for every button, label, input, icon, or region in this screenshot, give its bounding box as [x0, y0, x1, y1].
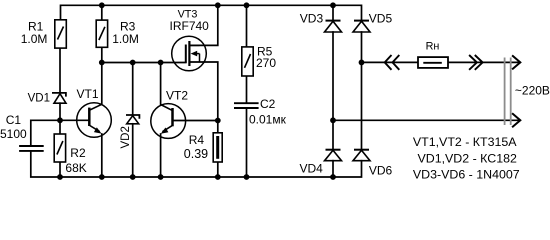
mains arrow bottom [512, 113, 520, 127]
junction VT1 emitter bottom rail [99, 174, 105, 180]
resistor R3 [96, 20, 107, 47]
junction VD1/R2 base node [57, 117, 63, 123]
svg-text:0.39: 0.39 [184, 147, 208, 161]
mains boundary double line [505, 58, 511, 126]
zener diode VD1 [52, 93, 66, 103]
wire VT2 emitter to rail [160, 134, 162, 177]
svg-text:VD1: VD1 [28, 92, 50, 104]
transistor VT2 [151, 104, 186, 139]
svg-text:VT1,VT2 - КТ315А: VT1,VT2 - КТ315А [413, 135, 517, 149]
svg-text:VD3-VD6 - 1N4007: VD3-VD6 - 1N4007 [413, 168, 520, 182]
diode VD6 [353, 150, 370, 161]
svg-text:VD4: VD4 [300, 161, 324, 175]
transistor VT1 [77, 103, 112, 138]
svg-text:Rн: Rн [426, 40, 440, 52]
junction VD3/VD4 mains node [330, 117, 336, 123]
zener diode VD2 [126, 115, 139, 124]
svg-text:VT2: VT2 [166, 89, 188, 103]
wire mains top [362, 61, 419, 63]
wire R1 bottom to VD1 [59, 48, 61, 93]
svg-text:5100: 5100 [0, 127, 27, 141]
svg-text:1.0M: 1.0M [112, 32, 139, 46]
svg-text:270: 270 [256, 56, 276, 70]
svg-text:C1: C1 [6, 113, 22, 127]
junction VD2 gate bus [130, 60, 136, 66]
wire VD1 to base node [59, 103, 61, 120]
wire base node to R2 [59, 120, 61, 134]
svg-text:IRF740: IRF740 [170, 19, 210, 33]
wire R3 top lead [101, 5, 103, 20]
svg-text:VD5: VD5 [369, 11, 393, 25]
junction R3 top rail [99, 2, 105, 8]
junction R4 bottom rail [215, 174, 221, 180]
svg-text:R2: R2 [70, 146, 86, 160]
diode VD4 [325, 150, 342, 161]
wire VT1 emitter to rail [101, 134, 103, 177]
wire VD3 anode to mains node [332, 32, 334, 150]
svg-text:VD3: VD3 [300, 11, 324, 25]
junction VD2 bottom rail [130, 174, 136, 180]
wire VD5 anode through crossing to VD6 [361, 32, 363, 150]
junction R2 bottom rail [57, 174, 63, 180]
wire VD3 column top [332, 5, 334, 20]
svg-text:~220В: ~220В [515, 83, 550, 97]
junction R5 top rail [244, 2, 250, 8]
resistor R2 [54, 134, 65, 162]
wire top rail [61, 5, 362, 20]
capacitor C2 [234, 103, 259, 108]
wire R5 to C2 [246, 76, 248, 102]
junction VD3 top rail [330, 2, 336, 8]
svg-text:1.0M: 1.0M [21, 32, 48, 46]
wire R5 top lead [246, 5, 248, 47]
svg-text:VD1,VD2 - КС182: VD1,VD2 - КС182 [418, 152, 517, 166]
junction VD4 bottom rail [330, 174, 336, 180]
MOSFET VT3 [172, 36, 207, 71]
wire VT1 base node [31, 120, 90, 145]
connector chevrons left of Rn [385, 55, 400, 70]
junction VD5/VD6 output node [359, 60, 365, 66]
wire VD2 top lead [132, 63, 134, 116]
connector chevrons right of Rn [469, 55, 483, 70]
wire VT1 collector [101, 63, 103, 105]
junction R3/VT1 collector gate bus [99, 60, 105, 66]
svg-text:C2: C2 [260, 97, 276, 111]
junction C2 bottom rail [244, 174, 250, 180]
wire VD2 bottom lead [132, 124, 134, 177]
wire gate bus [102, 62, 186, 64]
wire VD4 to rail [332, 161, 334, 177]
wire C2 bottom to rail [246, 109, 248, 177]
svg-text:R4: R4 [189, 133, 205, 147]
wire bottom rail [31, 152, 362, 177]
svg-text:68K: 68K [65, 161, 86, 175]
wire VT2 collector [160, 63, 162, 105]
resistor R4 [213, 133, 222, 162]
wire R4 bottom to rail [217, 162, 219, 177]
capacitor C1 [19, 146, 44, 151]
wire R2 bottom to rail [59, 162, 61, 177]
svg-text:VT1: VT1 [77, 87, 99, 101]
diode VD3 [325, 21, 342, 32]
resistor R5 [242, 47, 253, 76]
diode VD5 [353, 21, 370, 32]
junction VT2 collector gate bus [158, 60, 164, 66]
resistor Rn load [418, 57, 448, 68]
wire VT3 source column to R4 [190, 62, 218, 133]
wire mains bottom [333, 119, 520, 121]
svg-text:0.01мк: 0.01мк [249, 113, 287, 127]
svg-text:VD6: VD6 [369, 163, 393, 177]
junction VT2 emitter bottom rail [158, 174, 164, 180]
svg-text:VD2: VD2 [120, 126, 132, 148]
wire VT2 base to source node [173, 120, 218, 122]
junction VT3 source / VT2 base / R4 [215, 118, 221, 124]
wire VT3 drain column [190, 5, 218, 45]
junction VT3 drain top rail [215, 2, 221, 8]
resistor R1 [55, 20, 67, 48]
mains arrow top [512, 55, 520, 69]
wire R3 bottom to bus [101, 47, 103, 62]
